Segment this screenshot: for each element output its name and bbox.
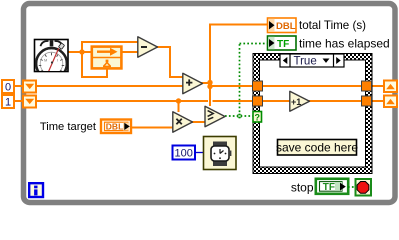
svg-text:0: 0: [5, 82, 11, 94]
svg-text:M: M: [44, 58, 47, 63]
svg-text:?: ?: [255, 113, 261, 123]
case tunnel right upper: [362, 81, 372, 91]
numeric constant 1: [2, 95, 14, 109]
junction dot to multiply: [176, 98, 181, 103]
wire: subtract output to add top input: [157, 47, 183, 77]
junction dots at add output: [207, 80, 212, 85]
case tunnel right lower: [362, 96, 372, 106]
case tunnel left upper: [253, 81, 263, 91]
svg-text:TF: TF: [323, 182, 335, 193]
wire: case tunnels to right shift registers: [371, 85, 384, 87]
green dotted wire: TF to stop button: [348, 186, 356, 188]
svg-text:I: I: [57, 58, 58, 63]
greater-or-equal node: [205, 106, 225, 126]
wire: multiply output to greater-or-equal bottom input: [192, 121, 205, 123]
subtract node: [138, 37, 158, 57]
wait (ms) function: [204, 137, 237, 170]
left shift register terminal B: [23, 96, 36, 108]
free label save code here: [276, 140, 358, 156]
DBL indicator total Time (s): [268, 18, 367, 33]
TF control stop: [291, 179, 348, 195]
green dotted wire: comparison to case selector with branch to TF indicator: [225, 44, 267, 117]
svg-text:save code here: save code here: [276, 141, 358, 155]
svg-text:DBL: DBL: [276, 21, 296, 32]
svg-text:time has elapsed: time has elapsed: [299, 37, 390, 51]
wire: tick count to feedback node: [68, 51, 92, 53]
while loop border: [24, 4, 396, 203]
iteration terminal i: [29, 183, 43, 197]
multiply node: [173, 112, 193, 132]
green wire junction: [237, 114, 242, 119]
wire: down into greater-or-equal top input: [209, 86, 211, 106]
svg-text:True: True: [294, 55, 317, 67]
case structure border: [253, 54, 372, 174]
TF indicator time has elapsed: [268, 36, 390, 51]
right shift register terminal A: [384, 81, 397, 93]
stop button: [356, 179, 372, 196]
svg-text:total Time (s): total Time (s): [299, 19, 366, 32]
wire: increment bus inside case (redrawn): [259, 100, 366, 102]
svg-text:stop: stop: [291, 181, 314, 195]
increment node +1: [290, 91, 310, 111]
add node: [183, 73, 203, 93]
wire: add output: [201, 82, 210, 84]
DBL control Time target: [40, 120, 131, 134]
numeric constant 100: [173, 146, 196, 160]
right shift register terminal B: [384, 96, 397, 108]
feedback node FB1: [92, 47, 122, 69]
wire: feedback node output to subtract bottom input: [122, 51, 138, 53]
wire: up to DBL indicator: [210, 25, 267, 84]
svg-text:DBL: DBL: [106, 121, 123, 131]
wire: Time target to multiply bottom input: [132, 127, 173, 129]
wire: shift register 0 bus to add bottom input: [14, 85, 183, 87]
numeric constant 0: [2, 80, 14, 94]
svg-text:1: 1: [5, 97, 11, 109]
case tunnel left lower: [253, 96, 263, 106]
wire: junction up to subtract top input: [82, 42, 138, 52]
wire: junction down around to feedback initializer: [82, 52, 107, 77]
case selector label True: [280, 54, 344, 67]
svg-text:Time target: Time target: [40, 121, 97, 133]
wire: 100 to wait: [195, 152, 204, 154]
junction dot on tick count output: [79, 49, 84, 54]
svg-text:100: 100: [175, 148, 193, 160]
wire: down into multiply top input: [178, 101, 180, 112]
tick count (ms) timer U1: [35, 40, 69, 79]
svg-text:TF: TF: [277, 39, 289, 50]
wire: increment bus inside case: [263, 100, 290, 102]
wire: total time bus inside case (redrawn over white): [259, 85, 366, 87]
wire: total time bus through case structure: [210, 85, 362, 87]
case selector terminal ?: [253, 112, 262, 123]
left shift register terminal A: [23, 81, 36, 93]
wire: shift register 1 bus (with gap at crossing): [14, 100, 208, 102]
svg-text:+1: +1: [291, 97, 301, 107]
